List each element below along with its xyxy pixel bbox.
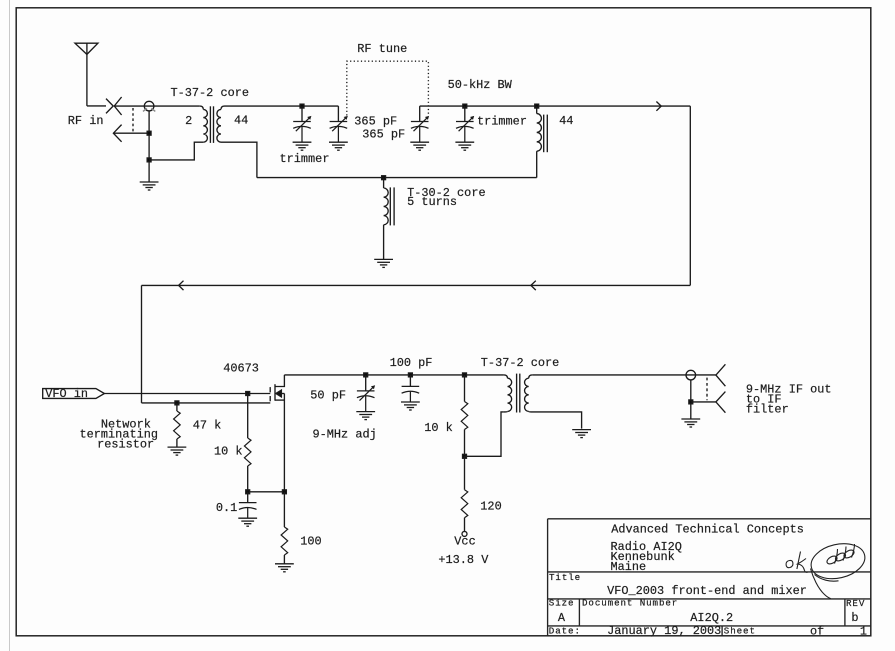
inductor L1 core <box>544 115 548 153</box>
title block Title row <box>549 572 807 598</box>
wire right vertical run <box>689 106 691 285</box>
variable capacitor C5 50pF <box>357 375 375 412</box>
svg-text:b: b <box>851 611 858 625</box>
title block Date row <box>549 624 867 639</box>
scan edge artifact <box>9 0 11 651</box>
svg-text:Date:: Date: <box>549 626 581 637</box>
svg-text:Document Number: Document Number <box>582 598 678 609</box>
svg-text:trimmer: trimmer <box>477 114 527 128</box>
ground under T3 secondary <box>572 430 591 438</box>
node 50pF tap <box>364 373 368 377</box>
node 47k tap <box>175 401 179 405</box>
svg-text:REV: REV <box>846 598 865 609</box>
svg-text:100 pF: 100 pF <box>390 356 433 370</box>
wire source bus <box>248 491 285 493</box>
node feed junction <box>463 454 467 458</box>
svg-text:Title: Title <box>549 572 581 583</box>
capacitor C7 0.1 <box>239 492 257 518</box>
svg-text:T-37-2 core: T-37-2 core <box>481 356 560 370</box>
ground under RF input <box>140 182 159 190</box>
node source resistor junction <box>282 490 286 494</box>
svg-text:resistor: resistor <box>97 437 154 451</box>
wire J2 ring to shield <box>690 380 692 419</box>
connector ring <box>143 101 155 111</box>
ground under C2 <box>329 142 348 150</box>
wire top bus left segment <box>225 105 339 107</box>
transformer T1 secondary winding 44t <box>217 106 257 178</box>
svg-text:VFO in: VFO in <box>45 387 88 401</box>
svg-text:365 pF: 365 pF <box>362 127 405 141</box>
transformer T3 secondary winding <box>525 375 582 429</box>
node L2 tap <box>382 176 386 180</box>
wire J2 shield lead <box>691 401 716 403</box>
handwritten ok approval <box>786 552 808 573</box>
transformer T3 core <box>517 374 520 413</box>
wire resonator return bus <box>257 177 537 179</box>
wire drain output bus <box>284 374 504 376</box>
svg-text:10 k: 10 k <box>424 421 453 435</box>
ground under R5 <box>275 564 294 572</box>
resistor R5 100 <box>281 492 288 564</box>
svg-text:5 turns: 5 turns <box>407 195 457 209</box>
resistor R6 120 <box>461 456 468 531</box>
connector J2 jack top <box>716 364 726 386</box>
svg-text:RF tune: RF tune <box>357 42 407 56</box>
ground under C3 <box>410 142 429 150</box>
svg-text:Advanced Technical Concepts: Advanced Technical Concepts <box>611 523 804 537</box>
Vcc terminal <box>462 531 467 536</box>
trimmer capacitor C1 <box>293 106 311 142</box>
node primary return junction <box>147 158 151 162</box>
connector J1 male pin <box>106 99 113 114</box>
svg-text:47 k: 47 k <box>193 418 222 432</box>
wire long return run <box>142 284 691 286</box>
node 10k gate tap <box>246 392 250 396</box>
svg-text:2: 2 <box>185 114 192 128</box>
svg-text:365 pF: 365 pF <box>354 114 397 128</box>
svg-text:trimmer: trimmer <box>280 152 330 166</box>
svg-text:0.1: 0.1 <box>216 501 237 515</box>
svg-text:T-37-2 core: T-37-2 core <box>171 86 250 100</box>
svg-text:filter: filter <box>746 402 789 416</box>
svg-text:Sheet: Sheet <box>724 626 756 637</box>
wire ring down to ground <box>148 111 150 182</box>
wire signal arrow right <box>656 102 661 111</box>
wire connector to transformer <box>114 105 200 107</box>
wire return arrow right <box>531 281 536 290</box>
ground under C5 <box>356 412 375 420</box>
svg-text:50 pF: 50 pF <box>310 389 346 403</box>
connector shield arrow <box>113 125 121 142</box>
inductor L1 44 turns <box>537 106 542 178</box>
ground under J2 <box>681 419 700 427</box>
VFO in flag <box>43 389 105 399</box>
node 10k drain tap <box>463 373 467 377</box>
connector J2 ring <box>686 370 696 380</box>
svg-text:RF in: RF in <box>68 114 104 128</box>
node trimmer C4 tap <box>463 104 467 108</box>
svg-text:of: of <box>810 624 824 638</box>
ground under R1 <box>168 447 187 455</box>
svg-text:40673: 40673 <box>223 362 259 376</box>
svg-text:10 k: 10 k <box>214 444 243 458</box>
connector J2 dashed link <box>706 378 708 401</box>
svg-text:44: 44 <box>559 114 573 128</box>
ground under C1 <box>293 142 312 150</box>
svg-text:VFO_2003 front-end and mixer: VFO_2003 front-end and mixer <box>607 584 807 598</box>
transistor Q1 40673 <box>270 375 284 492</box>
wire left vertical to mixer <box>141 285 143 403</box>
wire IF output <box>532 374 716 376</box>
ground under C6 <box>401 402 420 410</box>
svg-text:100: 100 <box>300 535 321 549</box>
resistor R2 10k gate <box>244 394 251 492</box>
svg-text:Vcc: Vcc <box>454 535 475 549</box>
node source bypass junction <box>246 490 250 494</box>
inductor L2 T-30-2 5 turns <box>384 178 389 260</box>
svg-text:+13.8 V: +13.8 V <box>438 553 489 567</box>
variable capacitor C2 365pF <box>330 106 348 142</box>
transformer T1 primary winding 2t <box>149 106 207 160</box>
wire return arrow left <box>179 281 184 290</box>
capacitor C6 100pF <box>402 375 420 402</box>
svg-text:44: 44 <box>234 114 248 128</box>
wire RF gate feed <box>142 402 271 404</box>
wire top bus right segment <box>420 105 691 107</box>
svg-text:1: 1 <box>860 624 867 638</box>
variable capacitor C3 365pF <box>411 106 429 142</box>
handwritten circled signature <box>808 539 869 599</box>
title block Size Document REV row <box>549 598 865 626</box>
label Network terminating resistor <box>80 417 159 451</box>
node J2 shield junction <box>689 400 693 404</box>
trimmer capacitor C4 <box>456 106 474 142</box>
resistor R1 47k <box>174 403 181 447</box>
title block frame <box>548 519 871 636</box>
svg-text:120: 120 <box>480 500 501 514</box>
connector J1 female jack <box>114 97 121 115</box>
node inductor L1 tap <box>535 104 539 108</box>
antenna <box>75 43 98 106</box>
node trimmer C1 tap <box>300 104 304 108</box>
ground under L2 <box>374 259 393 267</box>
wire feed to T3 primary <box>465 412 504 456</box>
label 9-MHz IF out to IF filter <box>746 383 832 417</box>
transformer T3 primary winding <box>504 375 512 412</box>
svg-text:Maine: Maine <box>611 560 647 574</box>
node 100pF tap <box>408 373 412 377</box>
ground under C4 <box>455 142 474 150</box>
connector J2 jack bottom <box>716 392 726 413</box>
transformer T1 core <box>210 106 213 143</box>
svg-text:A: A <box>558 611 566 625</box>
connector dashed link <box>132 108 134 132</box>
RF tune gang dotted link <box>347 61 429 115</box>
resistor R4 10k drain <box>461 375 468 456</box>
node shield junction <box>147 131 151 135</box>
wire VFO input <box>104 393 270 395</box>
wire antenna to RF connector <box>87 105 106 107</box>
svg-text:9-MHz adj: 9-MHz adj <box>313 428 377 442</box>
title block company text <box>611 523 804 574</box>
wire shield to ground bus <box>113 132 149 134</box>
svg-text:50-kHz BW: 50-kHz BW <box>448 78 513 92</box>
inductor L2 core <box>390 187 394 225</box>
ground under C7 <box>238 518 257 526</box>
svg-text:January 19, 2003: January 19, 2003 <box>607 624 721 638</box>
svg-text:Size: Size <box>549 598 575 609</box>
